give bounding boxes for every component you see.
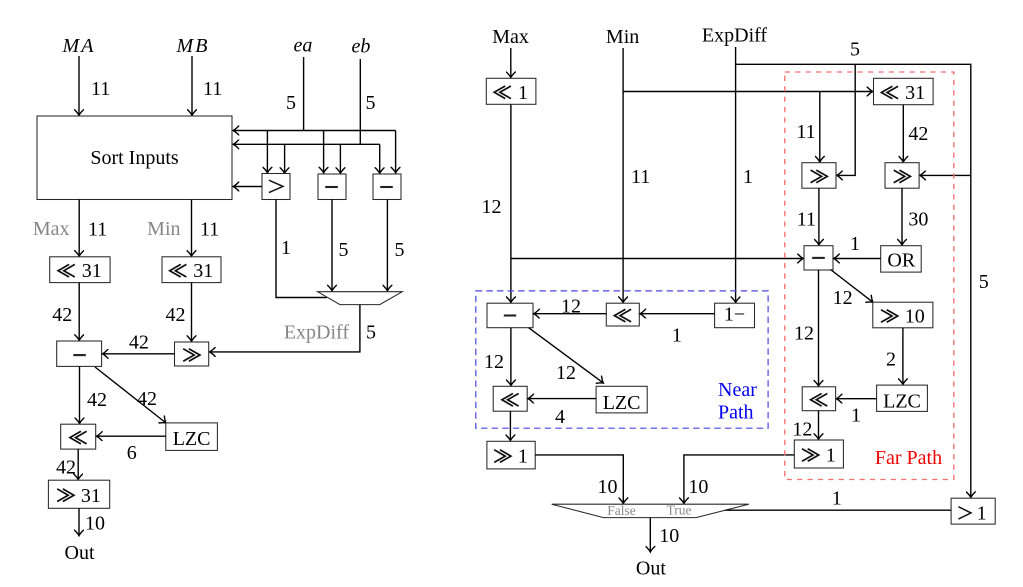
svg-text:ExpDiff: ExpDiff [284, 322, 350, 344]
svg-text:Min: Min [147, 218, 180, 240]
svg-text:ea: ea [294, 35, 313, 57]
svg-text:10: 10 [905, 306, 925, 328]
svg-text:11: 11 [631, 166, 650, 188]
svg-text:MB: MB [176, 35, 210, 57]
svg-text:12: 12 [794, 323, 814, 345]
svg-text:1−: 1− [724, 304, 745, 326]
svg-text:11: 11 [797, 209, 816, 231]
svg-text:1: 1 [977, 502, 987, 524]
svg-text:5: 5 [850, 39, 860, 61]
svg-text:10: 10 [688, 476, 708, 498]
svg-text:Far Path: Far Path [875, 447, 942, 469]
svg-text:42: 42 [166, 304, 186, 326]
svg-text:31: 31 [82, 260, 102, 282]
svg-text:12: 12 [484, 351, 504, 373]
svg-text:1: 1 [518, 82, 528, 104]
svg-text:11: 11 [796, 121, 815, 143]
svg-text:10: 10 [598, 476, 618, 498]
svg-text:Near: Near [718, 379, 757, 401]
svg-text:11: 11 [88, 219, 107, 241]
svg-text:5: 5 [366, 92, 376, 114]
svg-text:1: 1 [743, 166, 753, 188]
svg-text:MA: MA [62, 35, 96, 57]
svg-text:Max: Max [492, 26, 529, 48]
svg-text:LZC: LZC [173, 428, 211, 450]
svg-text:42: 42 [56, 457, 76, 479]
svg-text:Path: Path [718, 402, 754, 424]
svg-text:False: False [607, 503, 636, 518]
svg-text:10: 10 [85, 512, 105, 534]
svg-text:10: 10 [659, 525, 679, 547]
svg-text:Max: Max [33, 218, 70, 240]
svg-text:Sort Inputs: Sort Inputs [90, 147, 179, 169]
svg-text:LZC: LZC [603, 392, 641, 414]
svg-text:OR: OR [887, 249, 915, 271]
svg-text:Out: Out [636, 558, 666, 580]
svg-text:12: 12 [792, 419, 812, 441]
svg-text:Out: Out [65, 542, 95, 564]
svg-text:12: 12 [561, 295, 581, 317]
svg-text:11: 11 [91, 78, 110, 100]
svg-text:1: 1 [281, 237, 291, 259]
svg-text:4: 4 [555, 406, 565, 428]
svg-text:31: 31 [905, 82, 925, 104]
svg-text:True: True [666, 503, 691, 518]
svg-text:11: 11 [200, 219, 219, 241]
svg-text:1: 1 [851, 405, 861, 427]
svg-text:42: 42 [87, 389, 107, 411]
svg-text:12: 12 [482, 196, 502, 218]
svg-text:42: 42 [52, 304, 72, 326]
svg-text:LZC: LZC [883, 391, 921, 413]
svg-text:5: 5 [395, 239, 405, 261]
svg-text:eb: eb [352, 36, 371, 58]
svg-text:1: 1 [832, 488, 842, 510]
svg-text:6: 6 [127, 442, 137, 464]
svg-text:2: 2 [886, 349, 896, 371]
svg-text:12: 12 [556, 362, 576, 384]
svg-text:31: 31 [81, 485, 101, 507]
svg-text:1: 1 [672, 325, 682, 347]
svg-text:42: 42 [908, 123, 928, 145]
svg-text:ExpDiff: ExpDiff [702, 25, 768, 47]
svg-text:1: 1 [826, 445, 836, 467]
svg-text:42: 42 [129, 332, 149, 354]
svg-text:11: 11 [203, 78, 222, 100]
svg-text:31: 31 [193, 260, 213, 282]
svg-text:1: 1 [518, 446, 528, 468]
svg-text:5: 5 [286, 92, 296, 114]
svg-text:Min: Min [606, 26, 639, 48]
svg-text:30: 30 [908, 209, 928, 231]
svg-text:12: 12 [833, 287, 853, 309]
svg-text:5: 5 [979, 271, 989, 293]
svg-text:5: 5 [366, 322, 376, 344]
svg-text:42: 42 [137, 388, 157, 410]
svg-text:1: 1 [850, 233, 860, 255]
svg-text:5: 5 [339, 239, 349, 261]
